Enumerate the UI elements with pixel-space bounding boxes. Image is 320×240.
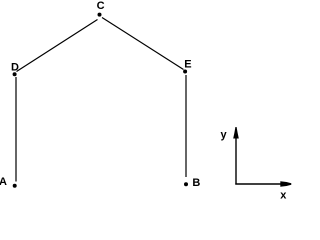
svg-text:y: y [221,129,228,141]
node D dot [13,72,17,76]
svg-text:E: E [184,59,191,71]
svg-text:B: B [192,177,200,189]
y-axis line [235,129,237,185]
x-axis arrowhead [280,181,291,186]
node A dot [13,184,17,188]
node C dot [98,13,102,17]
y-axis arrowhead [233,127,239,139]
svg-text:D: D [11,62,19,74]
svg-text:x: x [280,190,287,202]
wire segment D-A (left vertical side) [15,77,17,182]
node B dot [184,182,188,186]
wire segment D-C (left roof diagonal) [17,20,98,72]
svg-text:C: C [97,0,105,12]
svg-text:A: A [0,176,7,188]
wire segment E-B (right vertical side) [185,75,187,177]
wire segment C-E (right roof diagonal) [102,18,184,70]
x-axis line [235,183,291,185]
node E dot [183,70,187,74]
